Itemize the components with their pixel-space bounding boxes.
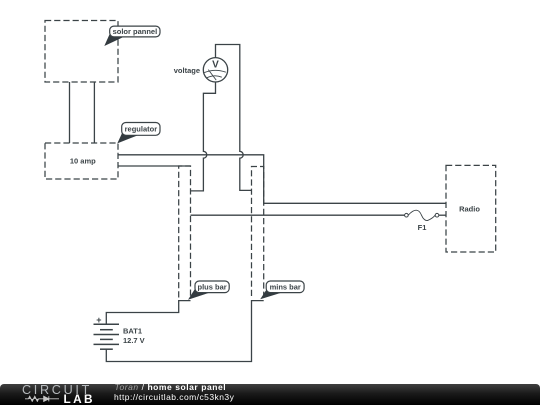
- callout plus bar: [188, 281, 229, 300]
- callout regulator: [117, 123, 160, 144]
- wire voltmeter bottom to plus bar (hops over wire A): [191, 82, 216, 191]
- node plus bar (dashed): [179, 166, 191, 298]
- wire mins bar to battery -: [106, 301, 263, 362]
- wire plus bar to battery +: [106, 301, 190, 324]
- regulator box: [45, 143, 118, 179]
- wire regulator out B (to plus bar top): [118, 165, 191, 167]
- svg-text:mins bar: mins bar: [270, 282, 301, 291]
- callout mins bar: [260, 281, 304, 299]
- voltmeter M1: [203, 58, 227, 82]
- svg-text:+: +: [96, 315, 101, 325]
- fuse F1: [405, 210, 446, 220]
- svg-text:Radio: Radio: [459, 204, 480, 213]
- svg-text:10 amp: 10 amp: [70, 156, 96, 165]
- svg-text:plus bar: plus bar: [198, 282, 227, 291]
- solar panel box: [45, 21, 118, 83]
- svg-text:12.7 V: 12.7 V: [123, 336, 145, 345]
- footer bar: [0, 384, 540, 405]
- wire voltmeter top to mins bar (hops over wire A): [216, 45, 252, 191]
- svg-text:regulator: regulator: [125, 124, 158, 133]
- footer url text: [114, 393, 234, 402]
- battery BAT1 plates: [94, 324, 120, 349]
- svg-text:V: V: [212, 60, 219, 71]
- svg-text:solor pannel: solor pannel: [113, 27, 158, 36]
- wire regulator out A (to mins bar / radio): [118, 155, 446, 204]
- wire solar left lead: [69, 82, 71, 143]
- svg-text:F1: F1: [418, 223, 427, 232]
- node mins bar (dashed): [252, 167, 264, 297]
- svg-text:BAT1: BAT1: [123, 327, 142, 336]
- footer title text: [115, 383, 227, 392]
- svg-text:voltage: voltage: [174, 66, 200, 75]
- footer logo LAB: [64, 394, 95, 405]
- footer logo CIRCUIT: [22, 384, 92, 397]
- wire solar right lead: [93, 82, 95, 143]
- callout solor pannel: [104, 26, 160, 46]
- radio box: [446, 165, 496, 252]
- wire F1 feed from plus bar: [191, 214, 405, 216]
- footer logo symbol (resistor + diode): [25, 395, 59, 402]
